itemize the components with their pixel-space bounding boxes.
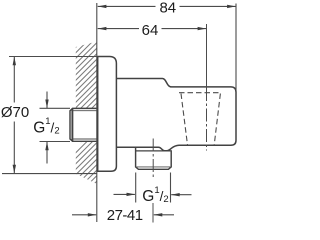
- wall section hatching lower: [70, 120, 103, 208]
- dim G1/2 inlet arrows: [45, 100, 48, 109]
- svg-text:G1/2: G1/2: [33, 116, 59, 136]
- svg-text:G1/2: G1/2: [142, 185, 168, 205]
- dim 64 arrows: [98, 27, 107, 30]
- dim 84 line: [98, 5, 236, 7]
- dim G1/2 outlet lines: [114, 193, 135, 195]
- dim O70 extension bottom: [2, 173, 97, 175]
- svg-text:64: 64: [142, 22, 159, 39]
- dim 27-41 arrows: [88, 213, 97, 216]
- outlet nipple G1/2: [136, 147, 172, 169]
- dim G1/2 outlet arrows: [127, 193, 136, 196]
- holder centerline: [206, 24, 208, 88]
- dim O70 arrows: [13, 57, 16, 66]
- dim O70 line: [13, 57, 15, 103]
- dim G1/2 inlet extension lines: [40, 107, 71, 109]
- svg-text:Ø70: Ø70: [1, 104, 29, 121]
- dim G1/2 outlet extension lines: [135, 173, 137, 203]
- holder cone hidden (dashed): [179, 93, 221, 145]
- dim 27-41 lines: [72, 214, 96, 216]
- extension line right x236: [235, 4, 237, 91]
- inlet union block in wall: [70, 108, 97, 141]
- escutcheon flange: [98, 57, 117, 172]
- holder body outline: [116, 79, 236, 151]
- svg-text:27-41: 27-41: [107, 207, 143, 224]
- dim O70 extension top: [9, 56, 98, 58]
- dim 84 arrows: [98, 5, 107, 8]
- nipple centerline: [152, 139, 154, 180]
- dim G1/2 inlet lines: [46, 92, 48, 109]
- wall section hatching upper: [70, 20, 103, 147]
- wall face line: [96, 3, 98, 222]
- dim 64 line: [98, 28, 207, 30]
- svg-text:84: 84: [159, 0, 176, 17]
